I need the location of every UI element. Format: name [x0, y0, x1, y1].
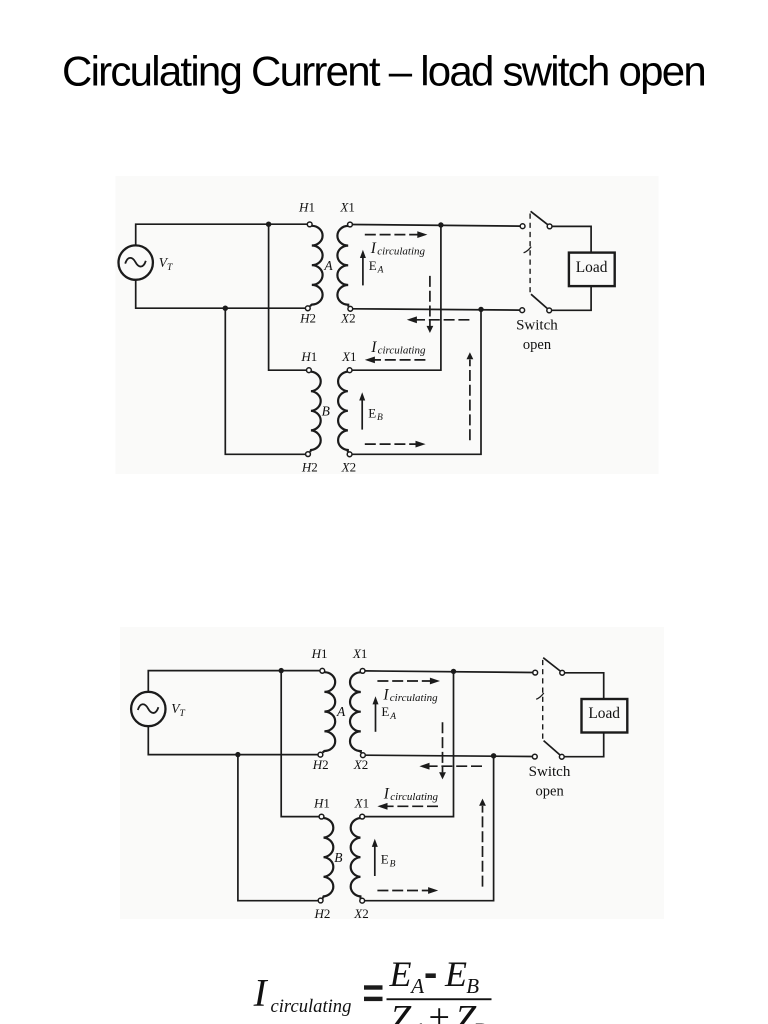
svg-text:X1: X1: [354, 795, 369, 810]
arrow EA: [362, 257, 364, 285]
node: junction bottom wire / H2B branch: [235, 752, 240, 757]
svg-text:H1: H1: [313, 795, 330, 810]
svg-text:H2: H2: [299, 310, 316, 325]
svg-text:E: E: [444, 954, 467, 994]
load box: [582, 699, 628, 733]
svg-text:circulating: circulating: [271, 996, 352, 1017]
svg-text:E: E: [368, 405, 376, 420]
svg-text:circulating: circulating: [378, 344, 426, 356]
svg-text:B: B: [390, 859, 396, 869]
svg-text:A: A: [377, 265, 384, 275]
source VT sine: [125, 258, 146, 267]
svg-text:A: A: [336, 704, 346, 719]
eq fraction bar: [387, 998, 492, 1000]
wire: source bottom to H2: [148, 726, 318, 755]
svg-text:Load: Load: [588, 705, 620, 722]
node: junction X2 parallel: [478, 307, 483, 312]
switch blade bottom: [531, 294, 547, 308]
svg-text:E: E: [381, 852, 389, 867]
switch linkage tick: [536, 693, 544, 699]
circuit diagram 1 (top): [119, 200, 615, 475]
transformer B primary coil: [323, 818, 334, 898]
dashed arrow up vertical right: [469, 360, 471, 441]
svg-text:Z: Z: [390, 998, 412, 1024]
circuit diagram 2 (bottom): [131, 646, 627, 921]
svg-text:Switch: Switch: [516, 318, 558, 334]
wire: X1B up to X1A wire: [352, 225, 441, 370]
switch blade top: [543, 658, 560, 671]
terminal X1 B: [360, 814, 365, 819]
arrow EA: [375, 703, 377, 731]
dashed arrow left above X1B wire: [385, 805, 438, 807]
svg-text:X2: X2: [341, 460, 356, 475]
switch linkage dashed: [529, 214, 531, 294]
terminal X2 B: [360, 898, 365, 903]
dashed arrow left above X1B wire: [373, 359, 426, 361]
svg-text:X1: X1: [341, 349, 356, 364]
terminal H2 B: [318, 898, 323, 903]
terminal H1 A: [307, 222, 312, 227]
switch blade top: [531, 211, 548, 224]
terminal X1 B: [347, 368, 352, 373]
terminal X2 A: [361, 753, 366, 758]
eq equals: [364, 985, 383, 989]
node: junction top wire / H1B branch: [279, 668, 284, 673]
transformer B primary coil: [310, 372, 321, 452]
dashed arrow left under X2 wire: [415, 319, 470, 321]
switch contact bottom left: [532, 754, 537, 759]
wire: X2B up to X2A wire: [352, 309, 481, 454]
scan background bottom figure: [120, 627, 664, 919]
svg-text:I: I: [253, 971, 269, 1014]
scan background top figure: [116, 176, 659, 474]
transformer B secondary coil: [338, 372, 348, 453]
terminal H1 B: [319, 814, 324, 819]
switch linkage tick: [524, 247, 532, 253]
svg-text:+: +: [429, 997, 450, 1024]
svg-text:E: E: [381, 704, 389, 719]
eq minus: [426, 973, 436, 978]
switch contact top left: [520, 224, 525, 229]
wire: branch to H2 of transformer B: [238, 755, 318, 901]
source VT circle: [119, 245, 153, 279]
wire: X1A to switch: [352, 225, 520, 227]
svg-text:X2: X2: [340, 310, 355, 325]
wire: X2A to switch: [365, 755, 532, 756]
switch linkage dashed: [542, 660, 544, 740]
svg-text:Circulating Current – load swi: Circulating Current – load switch open: [62, 48, 707, 95]
svg-text:X1: X1: [352, 646, 367, 661]
svg-text:E: E: [389, 954, 412, 994]
svg-text:H2: H2: [313, 906, 330, 921]
terminal H2 A: [318, 752, 323, 757]
svg-text:circulating: circulating: [390, 791, 438, 803]
transformer A primary coil: [323, 672, 336, 752]
wire: branch to H1 of transformer B: [281, 671, 319, 817]
wire: X1B up to X1A wire: [365, 671, 454, 816]
arrow EB: [361, 400, 363, 430]
dashed arrow down vertical: [429, 276, 431, 326]
dashed arrow top right: [365, 234, 418, 236]
node: junction X1 parallel: [438, 222, 443, 227]
dashed arrow up vertical right: [482, 806, 484, 887]
switch contact bottom right: [547, 308, 552, 313]
dashed arrow bottom right: [365, 443, 418, 445]
switch contact top right: [560, 670, 565, 675]
svg-text:A: A: [389, 712, 396, 722]
terminal X2 B: [347, 452, 352, 457]
terminal H1 A: [320, 668, 325, 673]
transformer B secondary coil: [351, 818, 361, 899]
wire: source top to H1: [136, 224, 308, 245]
svg-text:I: I: [382, 687, 389, 704]
terminal X1 A: [348, 222, 353, 227]
svg-text:X2: X2: [353, 757, 368, 772]
svg-text:A: A: [323, 258, 333, 273]
svg-text:B: B: [466, 974, 479, 998]
svg-text:H1: H1: [311, 646, 328, 661]
load box: [569, 253, 615, 287]
terminal H2 A: [305, 306, 310, 311]
dashed arrow left under X2 wire: [427, 765, 482, 767]
wire: load bottom to switch: [552, 286, 592, 310]
svg-text:A: A: [411, 1018, 427, 1024]
arrow EB: [374, 846, 376, 876]
svg-text:X1: X1: [339, 200, 354, 215]
terminal H1 B: [307, 368, 312, 373]
transformer A secondary coil: [350, 672, 361, 753]
wire: source bottom to H2: [136, 280, 306, 309]
node: junction X2 parallel: [491, 753, 496, 758]
wire: switch to load top: [565, 673, 604, 699]
dashed arrow top right: [377, 680, 430, 682]
svg-text:X2: X2: [353, 906, 368, 921]
switch contact top right: [547, 224, 552, 229]
svg-text:Switch: Switch: [529, 764, 571, 780]
equation I_circulating = (EA-EB)/(ZA+ZB): [253, 954, 492, 1024]
svg-text:Load: Load: [576, 259, 608, 276]
terminal X2 A: [348, 306, 353, 311]
wire: X2A to switch: [353, 309, 520, 310]
svg-text:H2: H2: [301, 460, 318, 475]
wire: branch to H2 of transformer B: [225, 308, 305, 454]
svg-text:open: open: [523, 337, 552, 353]
switch contact bottom left: [520, 308, 525, 313]
node: junction top wire / H1B branch: [266, 222, 271, 227]
wire: load bottom to switch: [564, 732, 604, 756]
svg-text:I: I: [370, 240, 377, 257]
transformer A secondary coil: [337, 226, 348, 307]
svg-text:B: B: [334, 850, 342, 865]
switch contact bottom right: [559, 754, 564, 759]
source VT sine: [138, 704, 159, 713]
svg-text:I: I: [370, 339, 377, 356]
switch blade bottom: [544, 741, 560, 755]
wire: branch to H1 of transformer B: [269, 224, 307, 370]
svg-text:H1: H1: [300, 349, 317, 364]
svg-text:I: I: [383, 786, 390, 803]
svg-text:open: open: [536, 784, 565, 800]
node: junction X1 parallel: [451, 669, 456, 674]
terminal X1 A: [360, 669, 365, 674]
transformer A primary coil: [310, 226, 323, 306]
source VT circle: [131, 692, 165, 726]
svg-text:circulating: circulating: [377, 245, 425, 257]
switch contact top left: [533, 670, 538, 675]
svg-text:circulating: circulating: [390, 692, 438, 704]
wire: source top to H1: [148, 671, 320, 692]
wire: switch to load top: [552, 226, 591, 252]
dashed arrow bottom right: [377, 890, 430, 892]
dashed arrow down vertical: [442, 722, 444, 772]
svg-text:H1: H1: [298, 200, 315, 215]
svg-text:B: B: [474, 1018, 487, 1024]
svg-text:B: B: [322, 404, 330, 419]
svg-text:A: A: [409, 974, 424, 998]
node: junction bottom wire / H2B branch: [223, 306, 228, 311]
svg-text:H2: H2: [312, 757, 329, 772]
terminal H2 B: [306, 452, 311, 457]
svg-text:B: B: [377, 413, 383, 423]
svg-text:E: E: [369, 258, 377, 273]
wire: X2B up to X2A wire: [365, 756, 494, 901]
wire: X1A to switch: [365, 671, 533, 673]
